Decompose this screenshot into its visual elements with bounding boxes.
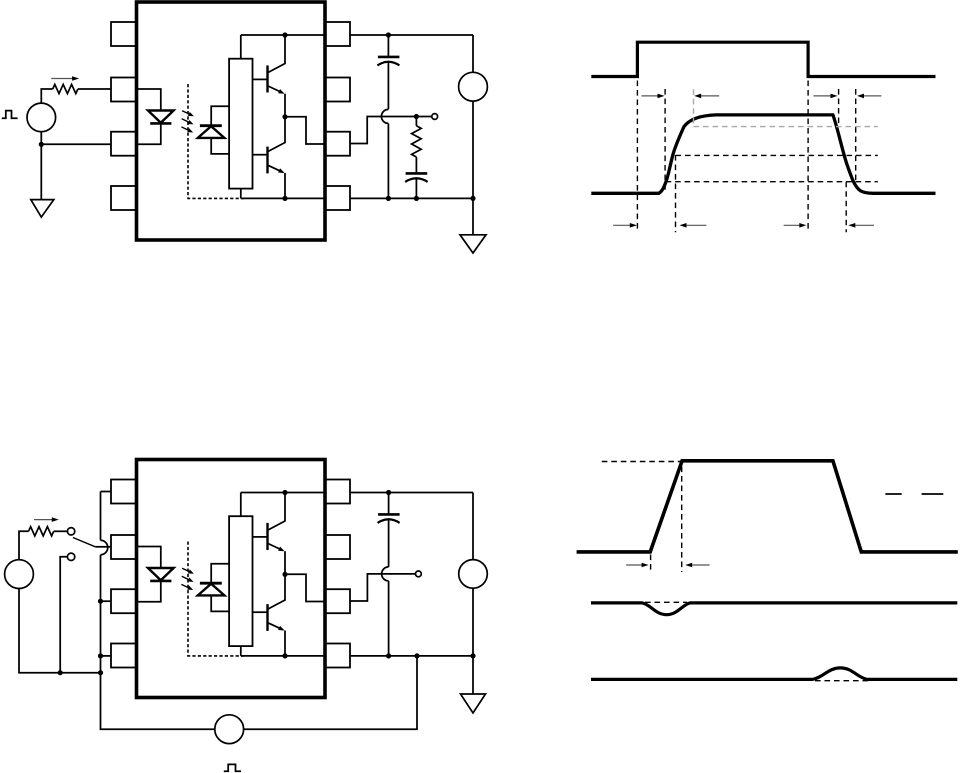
tf arrow left [864,95,881,97]
probe terminal (bottom) [416,571,422,577]
wire amp top to VCC rail [240,35,242,59]
dashed ideal level under glitch [815,680,869,682]
wire VG2 bottom to bus [19,589,101,673]
pin 3 [111,589,136,613]
switch SW1 lever [73,538,95,547]
ground (input side) [31,200,54,218]
wire PD cathode to amp [211,106,229,125]
wire resistor to pin2 [78,88,111,90]
pin 6 [325,589,350,613]
wire resistor to switch [54,530,68,532]
light arrow 3 [181,584,189,588]
dashed vertical V5 input fall edge [807,81,809,233]
wire VG2 top to resistor [19,531,29,559]
switch SW1 throw contact 1 [67,528,74,535]
DC source VG2 [5,560,34,589]
node RC gnd [414,196,419,201]
light arrow 1 [182,111,190,115]
dashed vertical V6 fall start [838,89,840,127]
pin 1 [111,22,136,46]
transistor Q2 base stub [253,154,267,156]
dashed vertical V7 fall ref [855,89,857,183]
wire pin2 to LED anode [136,547,161,569]
wire hop over signal [381,109,388,123]
transistor Q1 collector [268,35,285,73]
pin 7 [325,78,350,102]
photodiode D2 [198,126,225,138]
transistor Q2 emitter [268,165,283,172]
wire PD anode to amp [211,595,229,611]
supply VCC source (bottom) [459,560,488,589]
light arrow 3 [181,127,189,131]
light arrow 2 [182,119,190,123]
VCM trapezoid waveform [577,461,958,552]
shield dashed line [188,84,244,198]
pin 2 [111,78,136,102]
wire output junction to pin6 [285,574,325,601]
wire pin8 VCC rail [350,34,473,36]
node emitter-gnd junction [282,196,287,201]
transistor Q4 collector [268,574,285,609]
input pulse waveform VF [591,42,935,76]
node bus-VG2 [98,670,103,675]
dt arrow left [692,564,709,566]
wire bus to pin4 [101,655,112,657]
transistor Q3 emitter [268,544,283,551]
bottom arrow right (fall pair) [784,224,802,226]
output waveform VO [591,115,935,193]
transistor Q3 base bar [266,523,268,550]
LED D3 cathode bar [150,580,171,583]
amplifier block U2A [229,516,252,646]
photodiode D4 cathode bar [200,582,222,585]
node bypass cap tap [386,32,391,37]
node VCM gnd [414,653,419,658]
wire throw2 down to common [60,557,67,673]
dashed ideal level over glitch [645,601,687,603]
node VCC-collector junction [282,490,287,495]
gnd rail output side (bottom) [350,655,473,657]
capacitor C1 plate [378,56,400,59]
bus wire down with hop [100,492,102,541]
node cap gnd [386,196,391,201]
wire amp bottom stub [240,189,242,199]
wire hop to gnd (bottom) [388,581,390,656]
transistor Q2 collector [268,117,285,152]
wire hop to gnd [387,123,389,198]
wire VG1 bottom down to ground [40,132,42,200]
wire pin6 to probe [350,117,432,144]
wire to bypass cap (bottom) [388,493,390,514]
pin 5 [325,186,350,210]
pin 3 [111,132,136,156]
node VCC-collector junction [282,32,287,37]
pin 2 [111,535,136,559]
dashed 90% level line (gray) [694,126,878,128]
node supply gnd [470,196,475,201]
wire supply to gnd (bottom) [472,588,474,694]
wire Q4 emitter to gnd rail [284,631,286,656]
wire pin8 VCC rail (bottom) [350,492,473,494]
tPHL arrow right [814,95,833,97]
VCC rail [241,34,325,36]
wire lever to pin2 [95,546,111,548]
pulse generator VG1 [27,103,56,132]
wire PD anode to amp [211,138,229,154]
pin 4 [111,186,136,210]
dashed 10% level line [666,181,878,183]
dashed vertical V4 90% rise (gray) [693,89,695,126]
output waveform low with positive glitch [591,668,957,680]
LED D1 cathode bar [150,122,171,125]
bottom arrow left (fall pair) [853,224,874,226]
wire tap to resistor [415,117,417,126]
node bus-pin3 [98,599,103,604]
tr arrow left [701,95,719,97]
node output junction [282,114,287,119]
wire resistor to cap [415,157,417,172]
bottom arrow right (rise pair) [613,224,632,226]
bus wire continues [100,555,102,673]
amplifier block U1A [229,59,252,189]
pin 6 [325,132,350,156]
node RC load tap [414,114,419,119]
pin 7 [325,535,350,559]
legend dash mark 2 [922,493,944,495]
gnd rail inside package [241,655,325,657]
resistor RF [53,84,78,93]
wire Q1 emitter down [284,94,286,117]
wire rail to supply (bottom) [472,493,474,560]
photodiode D4 [198,584,225,596]
light arrow 1 [182,568,190,572]
bottom arrow left (rise pair) [685,224,707,226]
dashed vertical V1 input rise edge [636,81,638,233]
wire supply to gnd [472,101,474,235]
wire pin6 to probe (bottom) [350,574,416,601]
current flow arrow IF2 [34,519,53,521]
wire VCM to output gnd [244,656,417,729]
wire pin2 to LED anode [136,89,161,111]
capacitor CL curved plate [405,178,427,182]
probe terminal [432,114,438,120]
node output junction [282,572,287,577]
wire cap to gnd with hop [387,62,389,110]
capacitor CL plate [406,172,428,175]
wire Q2 emitter to gnd rail [284,173,286,198]
wire amp top to VCC rail [240,493,242,517]
dashed vertical ramp start [650,555,652,574]
dashed vertical V8 output 10% fall [845,182,847,233]
legend dash mark 1 [885,493,901,495]
current flow arrow IF [51,78,73,80]
switch SW1 throw contact 2 [67,553,74,560]
transistor Q1 emitter [268,86,283,93]
pin 8 [325,480,350,504]
supply VCC source [459,72,488,101]
optocoupler U2 package body [137,460,326,698]
wire bus down to VCM source [101,673,215,730]
wire cap to gnd with hop (bottom) [388,519,390,567]
LED D3 [148,568,174,580]
wire bus to pin3 [101,600,112,602]
transistor Q4 emitter [268,623,283,630]
wire CL to gnd [415,178,417,198]
transistor Q1 base bar [266,65,268,92]
resistor RL [412,126,422,157]
input pulse glyph [2,111,18,119]
pin 5 [325,644,350,668]
wire pin1 to bus [101,491,112,493]
dt arrow right [626,564,643,566]
node cap gnd (bottom) [386,653,391,658]
wire to bypass cap [387,35,389,56]
gnd rail output side [350,197,473,199]
wire junction to pin3 [41,143,111,145]
wire hop over lever wire [101,540,108,555]
shield dashed line [188,542,244,656]
pin 1 [111,480,136,504]
VCM pulse glyph [224,764,241,771]
capacitor C2 plate [378,513,400,516]
node emitter-gnd junction [282,653,287,658]
wire Q3 emitter down [284,551,286,574]
output waveform high with negative glitch [591,603,957,615]
wire VG1 top to resistor [41,89,52,103]
transistor Q3 base stub [253,536,267,538]
dashed VCM top level line [602,461,681,463]
wire LED cathode to pin3 [136,123,161,144]
transistor Q1 base stub [253,78,267,80]
pin 4 [111,644,136,668]
dashed 50% level line [676,154,878,156]
photodiode D2 cathode bar [200,124,222,127]
node bypass cap tap (bottom) [386,490,391,495]
resistor RF2 [29,527,54,536]
transistor Q3 collector [268,493,285,531]
node throw2-common [58,670,63,675]
capacitor C2 curved plate [378,519,400,523]
transistor Q2 base bar [266,147,268,174]
pin 8 [325,22,350,46]
LED D1 [148,111,174,123]
tPLH arrow right [642,95,660,97]
ground (bottom output side) [461,694,486,713]
node A: VG1 bottom junction [39,142,44,147]
wire PD cathode to amp [211,564,229,583]
capacitor C1 curved plate [377,62,399,66]
wire hop over signal (bottom) [382,567,389,581]
dashed vertical V2 output 50% rise [664,89,666,193]
wire LED cathode to pin3 [136,581,161,602]
dashed vertical V3 rise ref [675,155,677,232]
optocoupler U1 package body [137,2,326,240]
VCC rail [241,492,325,494]
transistor Q4 base bar [266,604,268,631]
gnd rail inside package [241,197,325,199]
wire rail to supply [472,35,474,72]
node supply gnd (bottom) [470,653,475,658]
node bus-pin4 [98,653,103,658]
light arrow 2 [182,576,190,580]
wire amp bottom stub [240,646,242,656]
dashed vertical ramp top [681,467,683,573]
transistor Q4 base stub [253,611,267,613]
ground (output side) [460,235,486,253]
wire output junction to pin6 [285,117,325,144]
VCM pulse source [215,715,244,744]
